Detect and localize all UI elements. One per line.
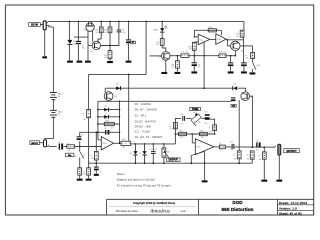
svg-text:50k: 50k	[198, 122, 201, 124]
node d7 right	[119, 116, 121, 118]
wire D4 down	[135, 144, 137, 151]
jack J3 output tick	[274, 146, 276, 148]
wire signal corner down to Q3	[104, 88, 106, 92]
wire C10 to ground	[243, 66, 245, 71]
ground below R22	[86, 179, 92, 181]
wire U1a out to U1b	[210, 38, 216, 40]
capacitor C16	[256, 142, 257, 147]
resistor R12 feedback	[208, 29, 216, 32]
ground below C12	[94, 174, 99, 176]
resistor R5	[160, 39, 164, 46]
title block outline	[107, 198, 314, 200]
resistor R6	[176, 61, 180, 68]
ground below J3	[276, 180, 282, 182]
svg-text:1N4: 1N4	[73, 44, 76, 46]
wire feedback top	[194, 29, 221, 31]
capacitor C12	[94, 167, 99, 168]
wire battery rail to input jack	[45, 118, 53, 140]
wire Q6 left emitter down	[238, 100, 240, 151]
wire Q4 base stub	[150, 55, 162, 57]
node tone rail mid	[175, 133, 177, 135]
wire R3 down to Vref node	[109, 33, 111, 46]
svg-text:D4: D4	[130, 153, 132, 155]
svg-text:10k: 10k	[185, 52, 188, 54]
node output-R20	[264, 146, 266, 148]
wire Q1 right lead down to Q2	[92, 30, 94, 41]
svg-text:OUTPUT: OUTPUT	[286, 150, 297, 153]
svg-text:IC1b: IC1b	[197, 147, 201, 149]
svg-text:Copyright 2003 by Gottfried Di: Copyright 2003 by Gottfried Divos	[133, 201, 176, 205]
node vref link top	[96, 132, 98, 134]
node C3	[153, 143, 155, 145]
resistor R19	[251, 52, 255, 58]
svg-text:D5: D5	[139, 153, 141, 155]
node R3-wire	[109, 45, 111, 47]
wire Q1 emitter down	[87, 30, 89, 45]
wire J3 sleeve down	[278, 155, 280, 179]
svg-text:10n: 10n	[58, 150, 61, 152]
svg-text:10k: 10k	[180, 137, 183, 139]
battery BAT2	[50, 109, 57, 112]
ground below C10	[241, 71, 247, 73]
svg-text:D1 : 1N4001: D1 : 1N4001	[135, 102, 152, 106]
wire mid link top	[89, 73, 147, 75]
wire C8 down	[193, 56, 195, 63]
svg-text:LED1: LED1	[153, 30, 158, 32]
node tone-inv	[192, 133, 194, 135]
jack J1 tip tick	[47, 145, 49, 147]
resistor R10	[121, 141, 131, 145]
jack J2 tip contact tick	[47, 21, 49, 23]
transistor Q4	[162, 52, 171, 61]
node bus-R3	[109, 21, 111, 23]
wire C12 to ground	[95, 170, 97, 173]
op-amp IC1b	[195, 139, 214, 155]
ground below C8	[191, 71, 197, 73]
node signal-midrail	[203, 87, 205, 89]
ground below C7	[126, 61, 132, 63]
svg-text:R14: R14	[105, 121, 108, 123]
node bias-vminus	[204, 162, 206, 164]
svg-text:S1b: S1b	[256, 65, 259, 67]
wire IC1b inv stub	[192, 142, 195, 144]
svg-text:DOD: DOD	[232, 200, 243, 205]
wire mid link down to R10 out	[128, 74, 130, 141]
capacitor C2	[77, 136, 82, 137]
svg-text:3: 3	[99, 150, 100, 152]
svg-text:100p: 100p	[121, 32, 125, 34]
wire loop top	[98, 100, 231, 102]
node bias C3	[153, 162, 155, 164]
ground below S1b	[250, 72, 256, 74]
wire R17b to C15	[225, 146, 231, 148]
wire C7 to ground	[128, 43, 130, 60]
resistor R13b tone	[179, 132, 187, 135]
wire bus to C5	[77, 21, 79, 41]
wire U1b out to R9 rail	[226, 39, 243, 41]
wire C13 corner to R16 rail	[210, 119, 215, 125]
wire input to C1	[49, 146, 57, 148]
resistor R9	[240, 30, 244, 37]
wire switch S1a up	[79, 147, 81, 152]
svg-text:10k: 10k	[104, 57, 107, 59]
wire bias end up to R18b	[251, 159, 253, 163]
potentiometer P2 tone	[191, 114, 201, 124]
wire D3 to Q6 corner	[238, 88, 246, 92]
copyright divider	[109, 206, 196, 208]
svg-text:6k8: 6k8	[209, 132, 212, 134]
node diode row left	[97, 109, 99, 111]
resistor R3	[108, 27, 112, 33]
svg-text:C13: C13	[204, 112, 207, 114]
node Vref-R6	[177, 55, 179, 57]
wire Q2 base rail to ground	[87, 45, 89, 60]
svg-text:D2: D2	[116, 84, 118, 86]
node U1b output	[227, 39, 229, 41]
wire diode row 2	[98, 116, 120, 118]
capacitor C13	[205, 114, 210, 116]
wire C11 to P2	[186, 117, 191, 119]
svg-text:R7: R7	[181, 52, 183, 54]
svg-text:C15: C15	[230, 141, 233, 143]
svg-text:C11: C11	[180, 114, 183, 116]
diode D5	[142, 151, 146, 154]
wire D1 to ground	[68, 45, 70, 61]
label box S1a	[66, 153, 74, 157]
wire C5 to ground	[77, 45, 79, 61]
svg-text:C4: C4	[104, 128, 106, 130]
resistor R7 horizontal	[181, 54, 189, 58]
wire inv drop to IC1b	[191, 134, 193, 143]
wire P3 drop	[163, 144, 165, 148]
node bias-C12	[96, 162, 98, 164]
LED D8	[160, 28, 164, 32]
potentiometer P3	[162, 148, 166, 157]
svg-text:10k: 10k	[247, 158, 250, 160]
svg-text:R8: R8	[220, 52, 222, 54]
wire battery rail down	[52, 27, 54, 92]
svg-text:C1: C1	[58, 142, 60, 144]
ground below R4	[107, 61, 113, 63]
ground below R17	[77, 179, 83, 181]
capacitor C6	[117, 29, 121, 32]
wire stage2 signal	[131, 143, 176, 145]
op-amp IC1a	[101, 137, 113, 150]
battery BAT1	[50, 91, 57, 94]
wire C3 to bus	[152, 154, 154, 163]
switch S2	[190, 155, 192, 163]
node Vref-C8	[194, 55, 196, 57]
svg-text:D6: D6	[105, 113, 107, 115]
capacitor C3	[151, 150, 156, 153]
svg-text:Sheet: #1 of #1: Sheet: #1 of #1	[279, 212, 302, 216]
wire Q2 base	[88, 44, 92, 46]
label box C14	[231, 104, 236, 107]
wire Q2 collector to C6 rail	[101, 45, 120, 47]
node tone feedback right	[214, 133, 216, 135]
node c4 left	[97, 132, 99, 134]
svg-text:7: 7	[228, 38, 229, 40]
svg-text:DC IN: DC IN	[31, 23, 38, 26]
svg-text:R13: R13	[179, 131, 182, 133]
svg-text:D6, D7 : 1N4148: D6, D7 : 1N4148	[135, 108, 157, 112]
svg-text:C2: C2	[81, 134, 83, 136]
transistor Q2	[92, 41, 100, 49]
wire mid link left down	[88, 74, 90, 109]
wire P3 to bus	[163, 157, 165, 163]
node d7 left	[97, 116, 99, 118]
svg-text:10k: 10k	[91, 158, 94, 160]
jack J3 output	[278, 144, 281, 155]
resistor R15b tone	[200, 132, 208, 135]
ground below Q4	[161, 72, 167, 74]
wire bus to R3	[109, 21, 111, 27]
wire bus corner down to R9	[243, 21, 245, 30]
diode D6 feedback	[104, 108, 108, 112]
svg-text:10k: 10k	[223, 52, 226, 54]
resistor R22 below bus	[88, 163, 90, 168]
capacitor C9	[228, 62, 234, 63]
transistor Q5	[231, 41, 240, 50]
svg-text:50k: 50k	[167, 152, 170, 154]
wire C9 to ground	[230, 66, 232, 71]
svg-text:22n: 22n	[181, 124, 184, 126]
wire D5 to bus	[144, 155, 146, 163]
wire Q1 base stub left	[74, 36, 88, 38]
node bus-C6	[118, 21, 120, 23]
wire bias bus	[89, 162, 253, 164]
node Vref-midrail	[203, 55, 205, 57]
node loop right top	[119, 101, 121, 103]
ground below R20	[261, 180, 267, 182]
svg-text:Q1: Q1	[83, 29, 86, 31]
svg-text:Amadeus: Amadeus	[149, 208, 170, 214]
node bias D5	[144, 162, 146, 164]
node U1a inverting	[194, 36, 195, 37]
svg-text:10u: 10u	[256, 149, 259, 151]
op-amp U1a	[198, 34, 210, 44]
capacitor C15	[232, 144, 233, 149]
wire R1 to node	[75, 146, 102, 148]
resistor R17b output	[220, 145, 226, 149]
ground below C5	[77, 61, 83, 63]
wire D5 down	[144, 144, 146, 151]
wire loop right rail	[119, 101, 121, 143]
resistor R13 on left rail	[87, 109, 91, 117]
svg-text:R10: R10	[122, 139, 125, 141]
node bus-C7	[128, 21, 130, 23]
svg-text:Q1..Q3, P1 : GB4007: Q1..Q3, P1 : GB4007	[135, 135, 163, 139]
ground below Q2 base rail	[85, 61, 91, 63]
svg-text:.com: .com	[180, 209, 187, 213]
label box C7	[131, 41, 136, 44]
ground below C9	[228, 71, 234, 73]
node bus-D1	[69, 21, 71, 23]
wire feedback rail down	[145, 21, 147, 74]
node bias D4	[135, 162, 137, 164]
wire R11 to Vref	[193, 50, 195, 55]
wire DC IN box to jack	[40, 24, 43, 26]
wire R6 to ground	[176, 68, 178, 72]
wire Q5 base left	[227, 45, 230, 47]
node r14 left	[97, 123, 99, 125]
wire C4 row	[80, 131, 120, 133]
ground below R6	[175, 72, 181, 74]
ground below D1	[67, 61, 73, 63]
wire bus to C6	[118, 21, 120, 29]
capacitor C7	[126, 39, 131, 40]
wire collector down to R19	[252, 46, 254, 53]
svg-text:6k8: 6k8	[170, 128, 173, 130]
wire R6 down	[176, 56, 178, 61]
node loop left top	[97, 101, 99, 140]
wire tone rail corner	[175, 118, 181, 143]
wire IC1a inverting stub	[98, 139, 101, 141]
wire Q5 base up to U1b out	[226, 40, 228, 46]
svg-text:100u: 100u	[82, 48, 86, 50]
jack J1 input	[44, 140, 47, 147]
label box OUTPUT pot	[166, 158, 180, 161]
node diode row right	[119, 109, 121, 111]
svg-text:D6: D6	[105, 106, 107, 108]
node bus-feedback rail	[145, 21, 147, 23]
svg-text:P2: P2	[193, 112, 195, 114]
info cell rows	[278, 204, 314, 206]
svg-text:OUTPUT: OUTPUT	[168, 159, 178, 161]
wire R2 to Q2 top	[100, 33, 102, 39]
svg-text:C3: C3	[150, 149, 152, 151]
svg-text:R15: R15	[200, 131, 203, 133]
wire R16 to tone feedback	[214, 131, 216, 134]
wire C15 to output node	[235, 146, 274, 148]
capacitor C5	[76, 41, 81, 42]
svg-text:Q2: Q2	[90, 51, 93, 53]
wire Q6 right lead down	[250, 96, 253, 147]
svg-text:D2,D3 : BA4734: D2,D3 : BA4734	[135, 119, 157, 123]
wire vref link vertical	[95, 132, 97, 146]
wire R21 to bias bus	[95, 160, 97, 163]
wire R20 drop	[263, 147, 265, 152]
capacitor C4 feedback	[105, 130, 106, 135]
svg-text:10u: 10u	[230, 149, 233, 151]
wire R18a to bias bus	[238, 159, 240, 163]
node D4	[135, 143, 137, 145]
switch S1b	[253, 62, 256, 68]
node Q5 emitter-rail	[235, 55, 237, 57]
node bias R18a	[238, 162, 240, 164]
svg-text:D4,D5 : JH8: D4,D5 : JH8	[135, 125, 151, 129]
diode D1	[67, 40, 72, 44]
node bias-S2	[191, 162, 193, 164]
svg-text:2k2: 2k2	[236, 36, 239, 38]
svg-text:10k: 10k	[259, 159, 262, 161]
wire left rail to bias bus	[88, 118, 90, 164]
transistor Q1	[86, 23, 94, 31]
resistor R11	[192, 42, 196, 50]
diode D7 feedback	[104, 115, 108, 119]
wire U1a inverting stub	[194, 36, 198, 38]
wire LED to R5	[161, 32, 163, 39]
wire Q4 emitter to ground	[165, 60, 167, 71]
svg-text:10u: 10u	[126, 44, 129, 46]
resistor R18b	[250, 151, 254, 159]
resistor R17	[78, 168, 82, 175]
node mid link	[128, 74, 130, 76]
svg-text:1k: 1k	[220, 150, 222, 152]
wire IC1a out	[114, 142, 122, 144]
wire bus to R2	[100, 21, 102, 27]
capacitor C8	[192, 62, 197, 63]
svg-text:C16: C16	[255, 140, 258, 142]
svg-text:10k: 10k	[246, 57, 249, 59]
svg-text:47u: 47u	[99, 172, 102, 174]
diode D3 near Q6	[233, 86, 237, 90]
svg-text:Provided by www.: Provided by www.	[116, 209, 139, 213]
wire C9 down	[230, 56, 232, 63]
node bias-P3	[163, 162, 165, 164]
node out-feedback	[119, 143, 121, 145]
wire feedback corner down to U1b	[220, 30, 222, 35]
wire C2 top corner	[79, 132, 81, 136]
wire C8 to ground	[193, 66, 195, 71]
svg-text:Q5: Q5	[241, 51, 244, 53]
capacitor C11	[182, 116, 183, 121]
wire R8 right to C9 node	[226, 55, 235, 57]
wire bus to C7	[128, 21, 130, 39]
svg-text:R12: R12	[209, 27, 212, 29]
node bus-R2	[100, 21, 102, 23]
wire Q5 collector right	[240, 45, 253, 47]
ground below IC1b	[202, 180, 208, 182]
wire IC1b vminus down	[204, 151, 206, 180]
node plus input	[96, 146, 98, 148]
label box TONE	[190, 107, 201, 110]
wire C12 down	[95, 163, 97, 166]
node bus-LED	[161, 21, 163, 23]
resistor R15 tone rail	[174, 123, 178, 129]
wire between batteries	[52, 100, 54, 110]
resistor R20	[262, 152, 266, 159]
wire bus to D1	[68, 21, 70, 40]
svg-text:22n: 22n	[204, 123, 207, 125]
svg-text:10k: 10k	[201, 137, 204, 139]
svg-text:IC1 : TL062: IC1 : TL062	[135, 130, 151, 134]
svg-text:555 Distortion: 555 Distortion	[222, 207, 254, 213]
jack J2 DC	[43, 21, 46, 30]
capacitor C1	[59, 144, 60, 150]
ground below DC jack	[42, 56, 47, 58]
wire R19 to switch S1b	[252, 59, 254, 62]
wire R4 to ground	[109, 59, 111, 61]
svg-text:10k: 10k	[234, 158, 237, 160]
resistor R8 horizontal	[219, 54, 226, 58]
svg-text:Version: 1.0: Version: 1.0	[279, 206, 297, 210]
svg-text:Drawn: 14.12.2003: Drawn: 14.12.2003	[279, 201, 307, 205]
svg-text:INPUT: INPUT	[31, 143, 38, 145]
wire IC1b out	[214, 146, 220, 148]
wire signal line to Q3	[105, 87, 233, 89]
capacitor C14	[231, 97, 236, 98]
wire C3 down	[152, 144, 154, 151]
svg-text:Notes :: Notes :	[117, 172, 126, 176]
wire R7 to R8	[189, 55, 219, 57]
wire P2 to C13	[201, 117, 205, 119]
wire Q5 emitter down	[234, 51, 236, 56]
svg-text:R1: R1	[67, 143, 69, 145]
node D5	[144, 143, 146, 145]
wire C2 corner	[79, 141, 81, 146]
svg-text:D7: D7	[105, 118, 107, 120]
